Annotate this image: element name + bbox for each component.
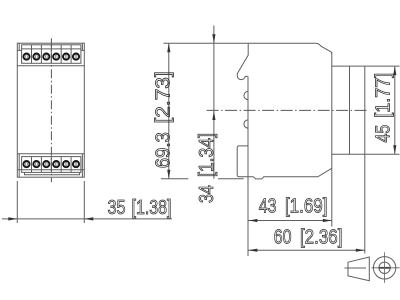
- top terminal screws: [23, 54, 79, 60]
- top block cell dividers: [32, 45, 72, 64]
- svg-text:35: 35: [108, 197, 126, 219]
- svg-text:[1.77]: [1.77]: [373, 73, 395, 118]
- svg-text:[2.73]: [2.73]: [152, 71, 174, 123]
- side view screw bump upper: [244, 91, 248, 99]
- side view top edge with 69.3 extension: [164, 42, 316, 44]
- front view bottom terminal block: [22, 157, 81, 173]
- side view front wall and lower ext line: [247, 76, 249, 256]
- dimension 45 arrows: [393, 66, 396, 154]
- terminal screw slot: [379, 267, 390, 269]
- terminal crosshair horizontal: [372, 267, 400, 269]
- dimension 69.3 line: [168, 43, 170, 179]
- bottom block ear lines: [19, 154, 82, 177]
- bottom terminal screws: [23, 161, 79, 167]
- dimension 34 arrows: [212, 34, 215, 120]
- top block lower full-width line: [17, 65, 84, 67]
- side view bottom terminal tab: [237, 146, 253, 177]
- svg-text:69.3: 69.3: [152, 132, 174, 168]
- dimension 35 arrows: [8, 217, 93, 220]
- svg-text:34: 34: [196, 185, 218, 203]
- rear block rear face and 60 ext line: [364, 66, 366, 253]
- front view bottom full-width line: [17, 153, 84, 155]
- bottom block cell dividers: [32, 157, 72, 173]
- side view screw bump lower: [244, 120, 248, 128]
- svg-text:[1.69]: [1.69]: [285, 196, 328, 218]
- dimension 69.3 arrows: [167, 43, 170, 179]
- side view bottom edge with recess: [254, 168, 332, 179]
- svg-text:60: 60: [274, 226, 292, 248]
- front view body outline: [17, 43, 84, 177]
- dimension 60 arrows: [248, 249, 364, 252]
- front view top ear lines: [17, 43, 84, 50]
- bottom block inner full-width line: [17, 169, 84, 171]
- dimension 35 line: [2, 218, 172, 220]
- terminal funnel centerline: [345, 267, 367, 269]
- side view rear wall and lower ext line: [331, 52, 333, 226]
- bottom screw slots: [26, 162, 77, 166]
- svg-text:[1.38]: [1.38]: [132, 197, 172, 219]
- dimension 69.3 bottom extension segments: [161, 178, 244, 180]
- side view top rear chamfer: [316, 43, 332, 53]
- svg-text:[2.36]: [2.36]: [300, 226, 343, 248]
- dimension 43 line: [248, 220, 331, 222]
- svg-text:45: 45: [373, 125, 395, 143]
- dimension 35 extension lines: [17, 181, 84, 223]
- side view front terminal profile with wire hook: [237, 43, 248, 79]
- dimension 45 line: [394, 66, 396, 154]
- rear block bottom line with 45 extension: [332, 153, 400, 155]
- terminal front view inner circle: [379, 262, 390, 273]
- dimension 34 line: [213, 26, 215, 179]
- rear block inner line: [349, 66, 351, 154]
- bottom block inset ledge: [25, 172, 80, 174]
- front view vertical centerline: [50, 38, 52, 182]
- dimension 43 arrows: [248, 219, 331, 222]
- terminal crosshair vertical: [384, 252, 386, 283]
- terminal funnel side view cone: [348, 257, 369, 281]
- dimension 60 line: [248, 249, 364, 251]
- svg-text:43: 43: [259, 196, 277, 218]
- top screw slots: [26, 55, 77, 59]
- rear block top line with 45 extension: [332, 65, 400, 67]
- terminal front view outer circle: [373, 257, 395, 279]
- front view top terminal block: [22, 45, 81, 64]
- top block inner line: [22, 48, 81, 50]
- svg-text:[1.34]: [1.34]: [196, 133, 218, 177]
- side view horizontal centerline: [207, 109, 368, 111]
